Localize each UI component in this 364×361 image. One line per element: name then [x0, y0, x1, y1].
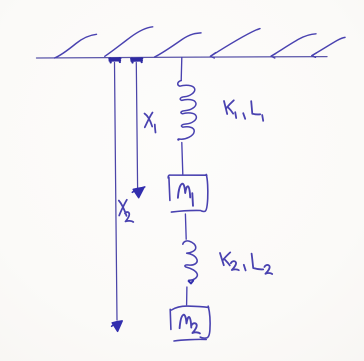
spring2 bottom hanger [186, 287, 188, 305]
spring1 end dot [177, 138, 179, 140]
arrow x1 head barb [132, 187, 145, 192]
label M2 [180, 315, 200, 334]
hatch 6 barb [312, 53, 317, 57]
label K2,L2 [220, 252, 272, 274]
spring 2 coil K2 [183, 241, 198, 280]
label K1,L1 [224, 100, 263, 121]
hanger M1 to spring2 [184, 214, 187, 239]
ceiling line [37, 57, 328, 58]
hatch 5 barb [271, 54, 276, 59]
arrow x1 head [133, 187, 144, 197]
label X2 [119, 200, 134, 222]
arrow x1 line (short) [136, 63, 137, 189]
hatch 3 [155, 33, 202, 57]
hatch 1 [55, 34, 97, 58]
hatch 2 [105, 27, 153, 57]
mass M2 box [170, 306, 210, 341]
spring2 end tick [189, 281, 194, 284]
hatch 4 barb [210, 53, 215, 58]
arrow x2 head barb [112, 321, 122, 326]
hanger hook T1 (attachment of x2 arrow) [109, 58, 120, 62]
hatch 5 [271, 34, 316, 56]
label M1 [178, 184, 193, 206]
label X1 [145, 113, 156, 133]
arrow x2 line (long) [115, 63, 118, 321]
arrow x2 head [112, 321, 122, 331]
hatch 4 [211, 29, 260, 57]
spring 1 coil K1 [178, 81, 197, 140]
spring1 bottom hanger [182, 143, 183, 175]
mass M1 box [168, 175, 208, 213]
spring1 top hanger [180, 58, 183, 81]
hatch 6 [312, 37, 345, 55]
hanger hook T2 (attachment of x1 arrow) [131, 58, 142, 62]
